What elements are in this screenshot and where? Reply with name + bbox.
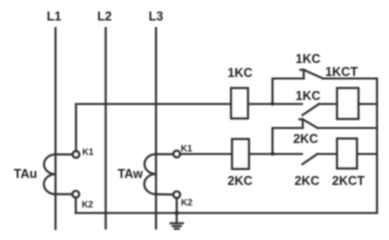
svg-text:K1: K1 (82, 147, 94, 157)
wire L3 phase line (155, 28, 157, 229)
contact 1KC (series with 1KCT coil) (296, 89, 321, 115)
svg-text:1KC: 1KC (296, 89, 321, 103)
wire TAw K1 to 2KC coil (180, 153, 232, 155)
svg-text:K2: K2 (181, 198, 193, 208)
node junction upper (271, 102, 275, 106)
relay coil 1KC (228, 66, 253, 119)
svg-text:1KC: 1KC (296, 52, 321, 66)
svg-text:2KC: 2KC (293, 132, 318, 146)
wire 2KC branch to right rail (318, 127, 378, 129)
svg-text:TAw: TAw (118, 167, 144, 181)
wire TAu K2 lead (56, 193, 73, 195)
relay coil 2KC (228, 139, 253, 188)
wire TAu K2 down to bus (75, 197, 77, 213)
svg-text:L3: L3 (149, 10, 164, 24)
svg-text:1KC: 1KC (228, 66, 253, 80)
ground (171, 213, 183, 229)
wire riser to 1KC parallel branch (273, 79, 304, 105)
wire from contact to 1KCT coil (319, 103, 337, 105)
svg-text:1KCT: 1KCT (325, 65, 358, 79)
svg-text:L2: L2 (97, 10, 112, 24)
relay coil 1KCT (325, 65, 358, 119)
wire 1KCT to right rail (359, 103, 378, 105)
contact 1KC (top branch, normally open) (296, 52, 324, 79)
svg-text:L1: L1 (47, 10, 62, 24)
wire right rail (376, 79, 378, 214)
wire L1 phase line (54, 28, 56, 229)
svg-text:K2: K2 (82, 200, 94, 210)
wire riser to 2KC parallel branch (273, 128, 303, 154)
wire TAw K2 down to bus (176, 198, 178, 213)
svg-text:2KCT: 2KCT (332, 174, 365, 188)
wire from 2KC coil to contacts (249, 153, 302, 155)
wire from contact to 2KCT coil (317, 153, 337, 155)
current transformer TAw (118, 154, 156, 194)
svg-text:K1: K1 (181, 144, 193, 154)
contact 2KC (top branch, normally open) (293, 119, 318, 146)
wire bottom return bus (76, 212, 377, 214)
wire from 1KC coil to contacts (248, 103, 302, 105)
wire 2KCT to right rail (357, 153, 377, 155)
svg-text:2KC: 2KC (228, 174, 253, 188)
node K1 terminal of TAu (73, 147, 94, 158)
node junction at ground (175, 211, 179, 215)
wire TAw K2 lead (156, 193, 174, 195)
node K1 terminal of TAw (173, 144, 192, 158)
svg-text:2KC: 2KC (295, 174, 320, 188)
wire from TAu K1 up to relay bus (76, 104, 231, 151)
wire TAu K1 lead (56, 153, 73, 155)
wire TAw K1 lead (156, 153, 174, 155)
contact 2KC (series with 2KCT coil) (295, 154, 320, 188)
current transformer TAu (14, 154, 56, 194)
node junction lower (271, 152, 275, 156)
wire top branch to right rail (323, 77, 377, 79)
relay coil 2KCT (332, 139, 365, 189)
wire L2 phase line (105, 28, 107, 229)
node K2 terminal of TAw (173, 191, 192, 207)
node K2 terminal of TAu (72, 191, 93, 210)
svg-text:TAu: TAu (14, 167, 37, 181)
